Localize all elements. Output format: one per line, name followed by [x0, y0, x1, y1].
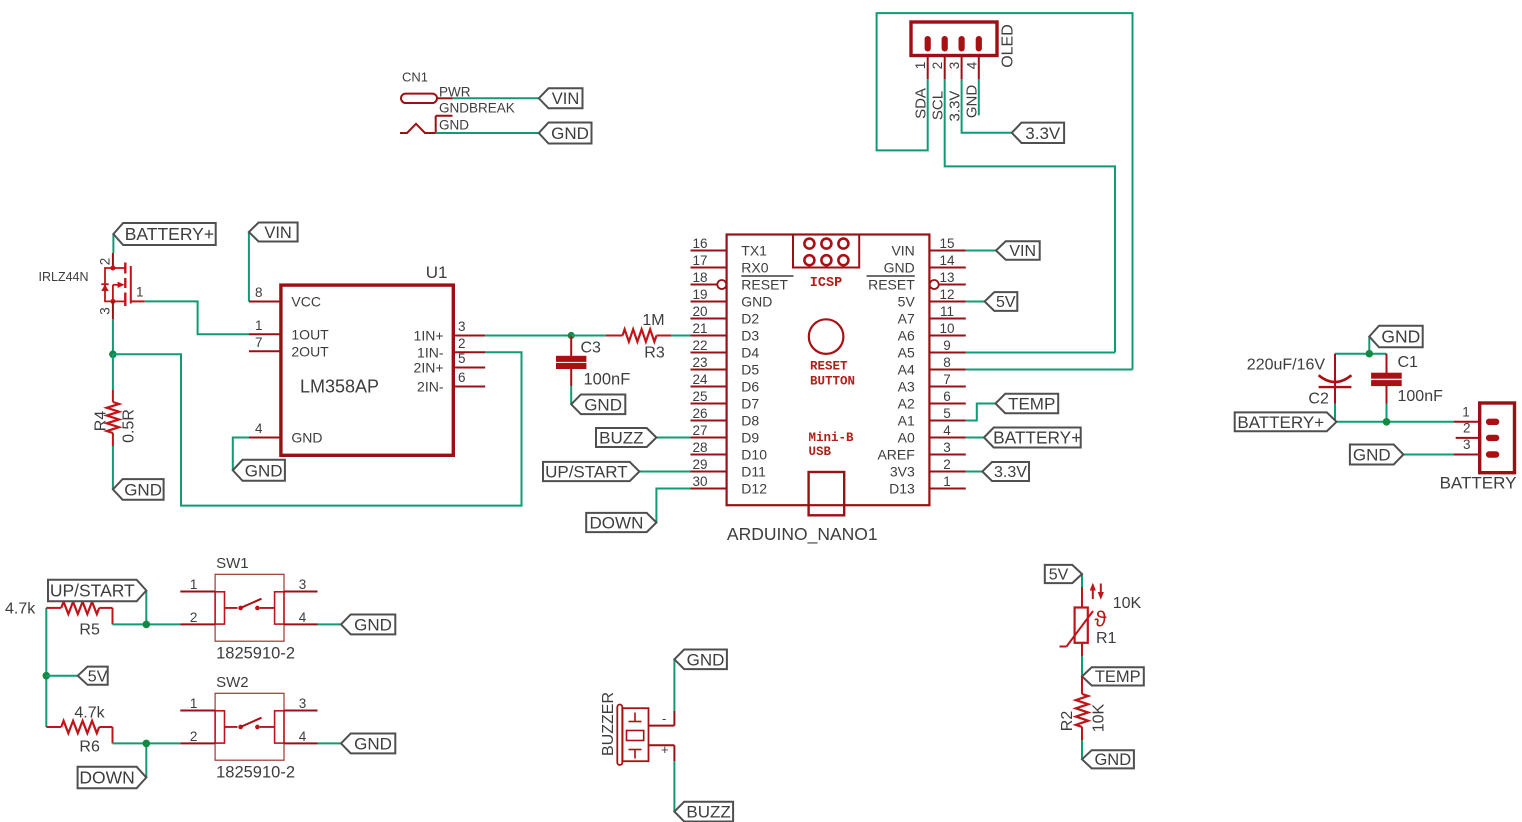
svg-text:0.5R: 0.5R: [121, 409, 138, 443]
switch SW1 body: [215, 574, 284, 641]
svg-text:UP/START: UP/START: [545, 462, 628, 481]
svg-text:BATTERY+: BATTERY+: [1237, 413, 1324, 432]
ARDUINO_NANO1 name: [727, 524, 878, 545]
op-amp U1 name: [426, 263, 448, 282]
svg-text:3: 3: [458, 319, 466, 334]
svg-text:C3: C3: [581, 340, 602, 357]
op-amp U1 pin 4 GND: [249, 421, 323, 446]
svg-text:VCC: VCC: [291, 294, 321, 310]
ARDUINO_NANO1 Mini-B USB label: [809, 431, 855, 459]
svg-text:VIN: VIN: [1009, 243, 1036, 260]
svg-text:2: 2: [190, 610, 198, 625]
net flag GND (buzzer): [674, 650, 727, 670]
wire PWR to VIN: [453, 97, 540, 99]
svg-text:1IN+: 1IN+: [414, 328, 444, 344]
ARDUINO_NANO1 pin 4 A0: [898, 423, 966, 446]
switch SW2 pin 1: [180, 696, 215, 711]
svg-text:5V: 5V: [88, 668, 108, 685]
svg-text:2: 2: [1463, 420, 1471, 435]
svg-text:4: 4: [299, 610, 307, 625]
svg-text:GND: GND: [439, 118, 469, 133]
svg-text:U1: U1: [426, 263, 448, 282]
svg-text:SDA: SDA: [913, 88, 930, 119]
connector BATTERY pin 1: [1454, 404, 1480, 421]
net flag 5V (rail): [78, 667, 108, 686]
svg-text:25: 25: [692, 389, 707, 404]
svg-text:R4: R4: [93, 411, 110, 432]
op-amp U1 body: [281, 285, 453, 455]
svg-text:4: 4: [964, 61, 979, 69]
svg-text:UP/START: UP/START: [50, 581, 135, 601]
net flag GND (C3): [571, 394, 625, 414]
wire R5 to SW1 pin2: [113, 623, 181, 625]
svg-text:TX1: TX1: [741, 243, 767, 259]
wire BATTERY+ rail: [1337, 421, 1455, 423]
net flag DOWN (rail): [78, 767, 147, 788]
net flag 3.3V (nano): [982, 462, 1029, 481]
svg-text:3.3V: 3.3V: [994, 464, 1027, 481]
svg-text:GND: GND: [245, 461, 283, 480]
svg-text:8: 8: [943, 355, 951, 370]
resistor R2 10K: [1059, 676, 1108, 740]
svg-text:3: 3: [943, 440, 951, 455]
svg-text:A2: A2: [898, 396, 915, 412]
svg-text:R5: R5: [79, 622, 100, 639]
svg-text:1: 1: [943, 474, 951, 489]
ARDUINO_NANO1 reset button: [809, 319, 855, 388]
svg-text:1: 1: [136, 285, 144, 300]
svg-text:D10: D10: [741, 447, 767, 463]
svg-text:D8: D8: [741, 413, 759, 429]
net flag GND (SW2): [341, 733, 395, 753]
ARDUINO_NANO1 pin 22 D4: [691, 338, 760, 361]
svg-text:GND: GND: [354, 615, 392, 634]
svg-text:BUZZER: BUZZER: [600, 692, 617, 756]
capacitor C2 220uF/16V: [1247, 354, 1352, 408]
svg-text:D6: D6: [741, 379, 759, 395]
svg-text:TEMP: TEMP: [1095, 668, 1141, 686]
buzzer pin plus: [649, 742, 675, 761]
pin label GNDBREAK: [439, 101, 515, 116]
svg-text:5V: 5V: [898, 294, 916, 310]
ARDUINO_NANO1 pin 7 A3: [898, 372, 966, 395]
resistor R5 4.7k: [5, 601, 113, 639]
svg-text:18: 18: [692, 270, 707, 285]
svg-text:A4: A4: [898, 362, 915, 378]
ARDUINO_NANO1 pin 15 VIN: [891, 236, 965, 259]
svg-text:1: 1: [1462, 404, 1470, 419]
ARDUINO_NANO1 pin 25 D7: [691, 389, 760, 412]
svg-text:1OUT: 1OUT: [291, 326, 329, 342]
svg-text:D3: D3: [741, 328, 759, 344]
svg-text:23: 23: [692, 355, 707, 370]
transistor Q1 IRLZ44N body: [101, 263, 144, 307]
svg-text:3: 3: [299, 577, 307, 592]
svg-text:1IN-: 1IN-: [417, 344, 444, 360]
svg-text:GND: GND: [584, 395, 622, 414]
svg-text:4: 4: [255, 421, 263, 436]
switch SW2 pin 2: [180, 729, 215, 744]
svg-text:1825910-2: 1825910-2: [216, 764, 295, 782]
net flag GND (R4): [113, 479, 164, 500]
svg-text:RESET: RESET: [741, 277, 788, 293]
op-amp U1 pin 7 2OUT: [249, 335, 329, 360]
svg-text:RX0: RX0: [741, 260, 768, 276]
ARDUINO_NANO1 pin 17 RX0: [691, 253, 769, 276]
svg-text:15: 15: [939, 236, 954, 251]
net flag VIN (nano): [996, 241, 1040, 260]
connector CN1 GND sawtooth: [400, 118, 469, 134]
net flag GND (U1): [233, 460, 285, 481]
op-amp U1 pin 1 1OUT: [249, 318, 329, 343]
OLED pin names SDA SCL 3.3V GND: [913, 85, 981, 122]
ARDUINO_NANO1 pin 26 D8: [691, 406, 760, 429]
net flag GND (SW1): [341, 614, 395, 634]
svg-text:GND: GND: [551, 124, 589, 143]
wire OLED SDA net (pin1 loop to A4 column): [877, 13, 1133, 369]
svg-text:A1: A1: [898, 413, 915, 429]
wire A0 to BATTERY+ flag: [966, 437, 984, 439]
svg-text:GND: GND: [741, 294, 772, 310]
net flag 3.3V (OLED): [1012, 123, 1064, 143]
ARDUINO_NANO1 pin 29 D11: [691, 457, 767, 480]
wire feedback loop junction to U1 pin2: [113, 352, 522, 505]
connector CN1 pin PWR: [401, 85, 471, 104]
svg-text:8: 8: [255, 285, 263, 300]
svg-text:10K: 10K: [1113, 595, 1142, 612]
ARDUINO_NANO1 pin 9 A5: [898, 338, 966, 361]
svg-text:GND: GND: [687, 650, 725, 669]
svg-text:BUTTON: BUTTON: [810, 375, 855, 389]
node junction at R4 top: [109, 351, 117, 359]
ARDUINO_NANO1 pin 5 A1: [898, 406, 966, 429]
svg-text:GNDBREAK: GNDBREAK: [439, 101, 515, 116]
net flag VIN (U1): [249, 223, 298, 242]
svg-text:12: 12: [939, 287, 954, 302]
svg-text:4.7k: 4.7k: [74, 705, 105, 722]
wire C1 bottom: [1386, 404, 1388, 422]
svg-text:5V: 5V: [996, 294, 1016, 311]
wire C2 bottom: [1334, 404, 1336, 422]
svg-text:DOWN: DOWN: [79, 768, 134, 788]
ARDUINO_NANO1 pin 23 D5: [691, 355, 760, 378]
svg-text:CN1: CN1: [402, 70, 428, 85]
connector OLED body: [911, 22, 997, 56]
svg-text:GND: GND: [1381, 327, 1420, 347]
switch SW1 pin 4: [284, 610, 318, 625]
node junction SW2 pin2: [143, 740, 151, 748]
svg-text:4: 4: [943, 423, 951, 438]
wire 5V flag stub: [46, 675, 78, 677]
ARDUINO_NANO1 pin 10 A6: [898, 321, 966, 344]
svg-text:D4: D4: [741, 345, 759, 361]
net flag UP/START (D11): [543, 462, 639, 482]
svg-text:D2: D2: [741, 311, 759, 327]
connector BATTERY pin 2 stub: [1456, 420, 1480, 438]
svg-text:3: 3: [1463, 437, 1471, 452]
node junction C3: [568, 332, 575, 339]
svg-text:2IN-: 2IN-: [417, 379, 444, 395]
wire GND flag to buzzer minus: [673, 659, 675, 711]
ARDUINO_NANO1 pin 8 A4: [898, 355, 966, 378]
svg-text:30: 30: [692, 474, 707, 489]
svg-text:LM358AP: LM358AP: [300, 377, 379, 397]
wire C3 to GND: [570, 386, 572, 404]
svg-text:11: 11: [940, 304, 954, 319]
svg-text:VIN: VIN: [552, 90, 580, 108]
ARDUINO_NANO1 USB connector box: [809, 472, 845, 515]
svg-text:ARDUINO_NANO1: ARDUINO_NANO1: [727, 524, 878, 545]
svg-text:GND: GND: [964, 85, 981, 119]
thermistor R1 10K: [1060, 583, 1142, 656]
switch SW1 name: [216, 555, 249, 572]
svg-text:GND: GND: [884, 260, 915, 276]
op-amp U1 value LM358AP: [300, 377, 379, 397]
node junction battery rail: [1383, 418, 1391, 426]
svg-text:2: 2: [458, 336, 466, 351]
svg-text:6: 6: [943, 389, 951, 404]
svg-text:14: 14: [939, 253, 955, 268]
svg-text:3: 3: [947, 62, 962, 70]
svg-text:10K: 10K: [1091, 703, 1108, 732]
buzzer BUZZER body: [617, 705, 648, 766]
resistor R4 0.5R: [93, 354, 138, 446]
wire A4 to SDA column: [966, 369, 1133, 371]
resistor R3 1M: [571, 312, 690, 362]
node junction 5V rail: [43, 672, 51, 680]
svg-text:1825910-2: 1825910-2: [216, 645, 295, 663]
net flag BATTERY+ (nano): [984, 428, 1081, 448]
svg-text:BATTERY: BATTERY: [1440, 474, 1517, 493]
svg-text:D12: D12: [741, 481, 767, 497]
ARDUINO_NANO1 pin 1 D13: [889, 474, 966, 497]
svg-text:3: 3: [98, 307, 113, 315]
buzzer name BUZZER: [600, 692, 617, 756]
svg-text:D11: D11: [741, 464, 766, 480]
svg-text:RESET: RESET: [810, 360, 848, 374]
wire D11 to UP/START flag: [639, 471, 690, 473]
wire R2 to GND: [1081, 740, 1083, 759]
svg-text:GND: GND: [124, 480, 162, 499]
svg-text:2: 2: [190, 729, 198, 744]
wire R6 to SW2 pin2: [113, 742, 181, 744]
wire 5V pin12: [966, 301, 985, 303]
svg-text:6: 6: [458, 370, 466, 385]
transistor Q1 name IRLZ44N: [39, 270, 89, 284]
svg-text:R2: R2: [1059, 711, 1076, 732]
svg-text:13: 13: [939, 270, 954, 285]
svg-text:2OUT: 2OUT: [291, 343, 329, 359]
ARDUINO_NANO1 pin 19 GND: [691, 287, 773, 310]
connector BATTERY pin 3: [1454, 437, 1480, 455]
svg-text:5: 5: [458, 351, 466, 366]
net flag BUZZ (D9): [596, 428, 656, 447]
wire DOWN flag to junction: [145, 743, 147, 777]
net flag GND (thermistor): [1082, 750, 1134, 769]
op-amp U1 pin 5 2IN+: [414, 351, 486, 376]
svg-text:4.7k: 4.7k: [5, 601, 36, 618]
svg-text:GND: GND: [1094, 751, 1131, 769]
svg-text:IRLZ44N: IRLZ44N: [39, 270, 89, 284]
svg-text:DOWN: DOWN: [590, 513, 644, 532]
svg-text:D13: D13: [889, 481, 915, 497]
svg-text:2: 2: [98, 258, 113, 266]
svg-text:28: 28: [692, 440, 707, 455]
svg-text:2: 2: [943, 457, 951, 472]
svg-text:OLED: OLED: [1000, 24, 1017, 68]
svg-text:1: 1: [190, 577, 198, 592]
svg-text:3.3V: 3.3V: [947, 91, 964, 122]
svg-text:7: 7: [943, 372, 951, 387]
wire U1 pin3 to junction: [485, 335, 571, 337]
transistor Q1 IRLZ44N pin 2 (drain): [98, 253, 113, 268]
svg-text:TEMP: TEMP: [1008, 394, 1055, 413]
net flag GND (battery): [1350, 445, 1404, 465]
wire OLED SCL net (pin2 to A5 column): [945, 79, 1115, 353]
svg-text:220uF/16V: 220uF/16V: [1247, 357, 1326, 374]
wire SW1 pin4 to GND: [318, 623, 342, 625]
svg-text:GND: GND: [354, 734, 392, 753]
net flag TEMP (thermistor): [1082, 667, 1144, 686]
svg-text:SW2: SW2: [216, 674, 249, 691]
svg-text:VIN: VIN: [264, 224, 292, 242]
svg-text:1: 1: [913, 62, 928, 70]
net flag BATTERY+ (left): [113, 223, 215, 245]
buzzer pin minus: [649, 711, 675, 726]
svg-text:A5: A5: [898, 345, 915, 361]
wire GND flag to C junction: [1368, 337, 1370, 354]
net flag GND (caps): [1369, 326, 1422, 348]
svg-text:1: 1: [190, 696, 198, 711]
OLED pin numbers 1 2 3 4: [913, 61, 979, 69]
node junction caps top: [1366, 350, 1374, 358]
svg-text:20: 20: [692, 304, 707, 319]
wire D12 to DOWN flag: [656, 489, 690, 523]
svg-text:-: -: [662, 711, 666, 726]
svg-text:24: 24: [692, 372, 708, 387]
svg-text:21: 21: [692, 321, 707, 336]
ARDUINO_NANO1 pin 3 AREF: [877, 440, 965, 463]
svg-text:17: 17: [692, 253, 707, 268]
svg-text:R3: R3: [644, 345, 665, 362]
svg-text:2: 2: [930, 62, 945, 70]
connector BATTERY name: [1440, 474, 1517, 493]
svg-text:SW1: SW1: [216, 555, 249, 572]
op-amp U1 pin 2 1IN-: [417, 336, 485, 361]
node junction SW1 pin2: [143, 621, 151, 629]
wire U1 GND pin4 to flag: [233, 438, 249, 471]
svg-text:+: +: [661, 742, 669, 757]
svg-text:GND: GND: [291, 430, 322, 446]
wire thermistor to TEMP: [1081, 656, 1083, 676]
svg-text:USB: USB: [809, 445, 832, 459]
net flag 5V (nano): [985, 292, 1018, 311]
svg-text:10: 10: [939, 321, 954, 336]
svg-text:GND: GND: [1353, 445, 1391, 464]
ARDUINO_NANO1 pin 21 D3: [691, 321, 760, 344]
svg-text:Mini-B: Mini-B: [809, 431, 855, 445]
ARDUINO_NANO1 pin 16 TX1: [691, 236, 768, 259]
svg-text:C2: C2: [1308, 391, 1329, 408]
net flag UP/START (SW1): [48, 580, 146, 602]
connector OLED contact pins: [925, 37, 981, 80]
ARDUINO_NANO1 pin 28 D10: [691, 440, 768, 463]
wire OLED GND pin4 stub: [978, 79, 980, 115]
net flag TEMP (nano): [996, 394, 1059, 414]
ARDUINO_NANO1 pin 18 RESET: [691, 270, 794, 293]
net flag GND (CN1): [539, 123, 592, 144]
wire source to junction: [112, 319, 114, 354]
svg-text:100nF: 100nF: [584, 371, 631, 389]
svg-text:ϑ: ϑ: [1095, 607, 1107, 632]
svg-text:ICSP: ICSP: [810, 276, 842, 291]
switch SW1 pin 1: [180, 577, 215, 592]
wire cap top rail: [1335, 353, 1387, 355]
svg-text:A0: A0: [898, 430, 915, 446]
switch SW2 pin 3 stub: [284, 696, 318, 711]
svg-text:AREF: AREF: [877, 447, 914, 463]
net flag 5V (thermistor): [1045, 565, 1082, 584]
op-amp U1 pin 3 1IN+: [414, 319, 486, 344]
ARDUINO_NANO1 pin 12 5V: [898, 287, 966, 310]
svg-text:27: 27: [692, 423, 707, 438]
svg-text:R6: R6: [79, 739, 100, 756]
svg-text:A7: A7: [898, 311, 915, 327]
wire SW2 pin4 to GND: [318, 742, 342, 744]
wire 3V3 to 3.3V flag: [966, 471, 983, 473]
ARDUINO_NANO1 pin 11 A7: [898, 304, 966, 327]
switch SW1 value 1825910-2: [216, 645, 295, 663]
wire 5V flag to thermistor: [1081, 574, 1083, 587]
svg-text:29: 29: [692, 457, 707, 472]
ARDUINO_NANO1 pin 6 A2: [898, 389, 966, 412]
resistor R6 4.7k: [46, 705, 112, 756]
svg-text:D7: D7: [741, 396, 759, 412]
ARDUINO_NANO1 pin 2 3V3: [890, 457, 966, 480]
svg-text:19: 19: [692, 287, 707, 302]
svg-text:SCL: SCL: [930, 91, 947, 120]
svg-text:BATTERY+: BATTERY+: [993, 428, 1081, 448]
svg-text:PWR: PWR: [439, 85, 471, 100]
wire VIN flag to U1 VCC pin 8: [248, 232, 250, 302]
svg-text:3V3: 3V3: [890, 464, 915, 480]
wire R4 to GND: [112, 446, 114, 489]
net flag VIN (CN1): [539, 88, 583, 108]
wire A1 to TEMP flag: [966, 404, 996, 421]
op-amp U1 pin 8 VCC: [249, 285, 321, 310]
ARDUINO_NANO1 pin 14 GND: [884, 253, 966, 276]
connector BATTERY body: [1480, 403, 1515, 473]
wire buzzer plus to BUZZ: [673, 761, 675, 811]
wire BATTERY+ flag to MOSFET drain: [112, 234, 114, 253]
ARDUINO_NANO1 pin 24 D6: [691, 372, 760, 395]
svg-text:5V: 5V: [1049, 567, 1069, 584]
svg-text:22: 22: [692, 338, 707, 353]
capacitor C1 100nF: [1372, 354, 1443, 405]
op-amp U1 pin 6 2IN-: [417, 370, 485, 395]
wire D9 to BUZZ flag: [656, 437, 690, 439]
net flag BUZZ (buzzer): [674, 802, 733, 822]
svg-text:BUZZ: BUZZ: [599, 428, 643, 447]
svg-text:26: 26: [692, 406, 707, 421]
ARDUINO_NANO1 ICSP header: [793, 235, 859, 292]
svg-text:16: 16: [692, 236, 707, 251]
wire GND to flag: [436, 132, 539, 134]
ARDUINO_NANO1 pin 27 D9: [691, 423, 760, 446]
svg-text:BUZZ: BUZZ: [686, 803, 730, 822]
svg-text:D9: D9: [741, 430, 759, 446]
svg-text:7: 7: [255, 335, 263, 350]
